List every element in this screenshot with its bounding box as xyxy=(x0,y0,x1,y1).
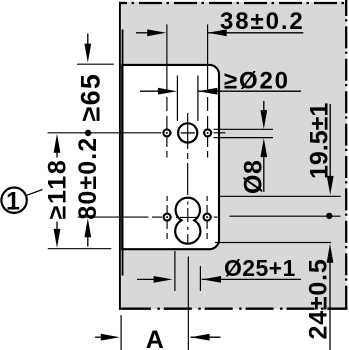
svg-text:≥118: ≥118 xyxy=(44,159,72,220)
svg-text:19.5±1: 19.5±1 xyxy=(305,103,333,179)
svg-text:Ø8: Ø8 xyxy=(240,160,268,194)
svg-text:24±0.5: 24±0.5 xyxy=(305,258,333,339)
svg-text:A: A xyxy=(146,326,164,350)
svg-text:1: 1 xyxy=(6,188,20,216)
svg-text:≥Ø20: ≥Ø20 xyxy=(224,68,290,95)
svg-text:80±0.2: 80±0.2 xyxy=(74,137,102,220)
svg-text:Ø25+1: Ø25+1 xyxy=(224,255,296,281)
svg-text:≥65: ≥65 xyxy=(76,73,106,121)
svg-text:38±0.2: 38±0.2 xyxy=(220,8,305,35)
